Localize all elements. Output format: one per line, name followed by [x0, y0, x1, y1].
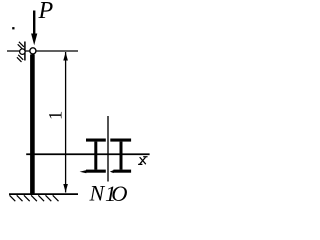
I-beam 2 top flange — [110, 139, 131, 142]
wire top horizontal line — [7, 50, 78, 52]
roller circle — [20, 49, 26, 55]
svg-text:P: P — [38, 0, 54, 24]
I-beam 1 leader arrow — [80, 170, 87, 173]
wall hatch bottom — [17, 55, 23, 62]
ground line — [9, 193, 78, 195]
I-beam 2 web — [120, 142, 123, 170]
svg-text:1: 1 — [46, 111, 66, 120]
force arrow P — [31, 11, 37, 46]
ground hatch — [10, 195, 59, 201]
dimension arrow up — [63, 52, 68, 60]
dimension arrow down — [63, 184, 68, 192]
svg-text:O: O — [111, 181, 127, 206]
I-beam 1 top flange — [86, 139, 106, 142]
I-beam 2 leader arrow — [110, 170, 114, 173]
dimension line l — [65, 52, 67, 193]
axis label x — [139, 157, 147, 165]
column — [30, 54, 35, 194]
I-beam 1 web — [94, 142, 97, 170]
axis x line — [26, 153, 149, 155]
I-beam 2 bottom flange — [113, 170, 131, 173]
section center line — [107, 116, 109, 182]
stray dot — [12, 27, 14, 29]
I-beam 1 bottom flange — [86, 170, 106, 173]
wall hatch top — [18, 42, 24, 49]
wall line of roller support — [24, 42, 26, 61]
pin circle at column top — [30, 48, 36, 54]
svg-text:N: N — [89, 181, 106, 206]
